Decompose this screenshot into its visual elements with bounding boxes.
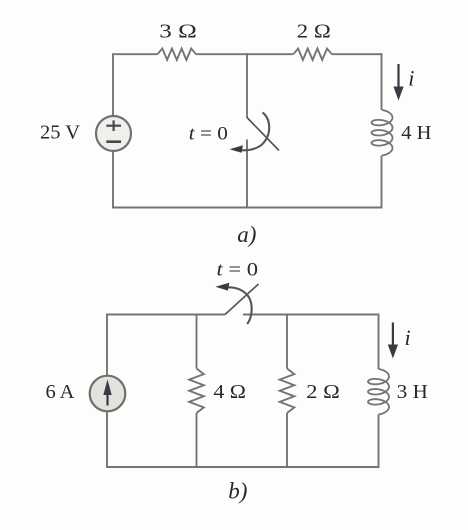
wire: 2-ohm branch lower lead [286, 413, 288, 467]
wire: circuit b right vertical upper [378, 314, 380, 369]
svg-text:a): a) [237, 222, 256, 247]
wire: circuit a right vertical lower [381, 156, 383, 209]
wire: circuit a right vertical upper [381, 53, 383, 110]
wire: circuit a top-right segment [332, 53, 383, 55]
svg-text:t = 0: t = 0 [189, 124, 228, 145]
inductor L2 3H coil [368, 369, 389, 415]
wire: 2-ohm branch upper lead [286, 315, 288, 369]
switch S1 arc arrow [240, 113, 269, 151]
wire: 4-ohm branch upper lead [196, 315, 198, 369]
current arrow i (b) [392, 323, 394, 347]
switch S1 lower lead [246, 140, 248, 209]
wire: circuit a top-middle segment [196, 53, 293, 55]
wire: circuit b top-left segment [107, 314, 225, 316]
wire: circuit a bottom [112, 207, 382, 209]
resistor R2 2-ohm zigzag [293, 49, 332, 60]
wire: circuit a left vertical lower [112, 152, 114, 209]
switch S1 upper lead [246, 53, 248, 118]
svg-text:4 H: 4 H [401, 122, 431, 144]
wire: 4-ohm branch lower lead [196, 413, 198, 467]
switch S1 arrowhead [230, 145, 244, 153]
svg-text:3 H: 3 H [397, 381, 428, 403]
current source I1 6A circle [90, 376, 126, 412]
voltage source V1 25V circle [96, 116, 131, 151]
switch S2 arc arrow [228, 287, 252, 324]
switch S1 blade [247, 118, 279, 151]
wire: circuit b bottom [106, 466, 379, 468]
current source arrow [106, 392, 108, 406]
resistor R1 3-ohm zigzag [158, 49, 197, 60]
wire: circuit a top-left segment [113, 53, 158, 55]
svg-text:3 Ω: 3 Ω [159, 20, 197, 42]
svg-text:i: i [405, 325, 411, 350]
wire: circuit b left vertical lower [106, 411, 108, 468]
voltage source plus sign [106, 120, 121, 131]
svg-text:t = 0: t = 0 [217, 260, 259, 281]
current arrow i (a) [397, 64, 399, 88]
switch S2 blade [225, 284, 259, 315]
wire: circuit b right vertical lower [378, 415, 380, 468]
svg-text:2 Ω: 2 Ω [306, 381, 340, 403]
switch S2 arrowhead [215, 283, 229, 291]
voltage source minus sign [106, 140, 121, 143]
svg-text:i: i [408, 66, 414, 91]
svg-text:25 V: 25 V [40, 122, 80, 144]
svg-text:b): b) [228, 478, 247, 503]
svg-text:6 A: 6 A [45, 381, 74, 403]
svg-text:4 Ω: 4 Ω [213, 381, 246, 403]
wire: circuit b top-right segment [243, 314, 379, 316]
inductor L1 4H coil [372, 110, 393, 156]
wire: circuit b left vertical upper [106, 314, 108, 376]
svg-text:2 Ω: 2 Ω [297, 21, 331, 43]
wire: circuit a left vertical upper [112, 53, 114, 116]
resistor R4 2-ohm zigzag [280, 369, 295, 414]
resistor R3 4-ohm zigzag [189, 369, 204, 414]
